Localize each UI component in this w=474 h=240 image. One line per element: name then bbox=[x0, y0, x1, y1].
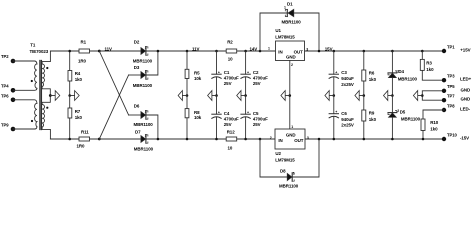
svg-text:4700uF: 4700uF bbox=[224, 75, 239, 80]
svg-text:R3: R3 bbox=[426, 60, 432, 65]
svg-text:2: 2 bbox=[291, 63, 293, 67]
svg-text:R11: R11 bbox=[81, 130, 89, 135]
resistor R11 bbox=[77, 130, 90, 149]
node 15V label bbox=[325, 47, 333, 52]
svg-text:TP7: TP7 bbox=[447, 94, 455, 99]
svg-text:1: 1 bbox=[293, 171, 295, 175]
resistor R2 bbox=[226, 39, 237, 61]
resistor R3 bbox=[420, 50, 444, 80]
svg-text:1: 1 bbox=[291, 125, 293, 129]
transformer polarity dot primary 2 bbox=[31, 120, 33, 122]
transformer T1 core bbox=[40, 61, 42, 130]
svg-text:10: 10 bbox=[228, 56, 233, 61]
capacitor C4 bbox=[212, 96, 239, 140]
node R9 bottom bbox=[363, 138, 366, 141]
svg-text:D3: D3 bbox=[134, 65, 140, 70]
wire TP4 to primary winding 1 bottom bbox=[13, 88, 37, 90]
svg-text:+15V: +15V bbox=[460, 48, 470, 53]
resistor R1 bbox=[78, 39, 90, 63]
svg-text:3: 3 bbox=[306, 47, 308, 51]
svg-text:2: 2 bbox=[270, 136, 272, 140]
svg-text:+: + bbox=[247, 110, 249, 114]
svg-text:OUT: OUT bbox=[294, 138, 303, 143]
svg-text:14V: 14V bbox=[250, 47, 258, 52]
capacitor C1 bbox=[212, 50, 239, 96]
svg-text:R4: R4 bbox=[75, 71, 81, 76]
resistor R12 bbox=[226, 130, 237, 151]
node R4 top junction bbox=[68, 50, 71, 53]
svg-text:LED+: LED+ bbox=[460, 77, 472, 82]
node B bottom rectifier input bbox=[98, 138, 101, 141]
diode D5 bbox=[388, 96, 421, 140]
node A top rectifier input bbox=[98, 47, 112, 53]
svg-text:C6: C6 bbox=[341, 111, 347, 116]
svg-text:940uF: 940uF bbox=[341, 76, 354, 81]
svg-text:+: + bbox=[218, 70, 220, 74]
svg-text:1: 1 bbox=[268, 47, 270, 51]
diode D2 bbox=[99, 40, 158, 64]
resistor R8 bbox=[185, 96, 202, 140]
svg-text:4700uF: 4700uF bbox=[224, 117, 239, 122]
ground center tap bbox=[49, 91, 60, 101]
ground U1 U2 GND bbox=[281, 91, 291, 101]
svg-text:U2: U2 bbox=[275, 151, 281, 156]
svg-text:2: 2 bbox=[145, 69, 147, 73]
ground R6 R9 bbox=[355, 91, 365, 101]
svg-text:4700uF: 4700uF bbox=[253, 75, 268, 80]
wire secondary 2 bottom lead to bottom rail bbox=[42, 127, 50, 139]
svg-text:D1: D1 bbox=[287, 2, 293, 7]
svg-text:TP2: TP2 bbox=[1, 54, 9, 59]
svg-text:1k0: 1k0 bbox=[369, 77, 377, 82]
svg-text:R10: R10 bbox=[430, 120, 439, 125]
transformer polarity dot primary 1 bbox=[31, 80, 33, 82]
svg-text:TP8: TP8 bbox=[447, 103, 455, 108]
svg-text:2: 2 bbox=[145, 45, 147, 49]
svg-text:1k0: 1k0 bbox=[75, 115, 83, 120]
svg-text:LM79M15: LM79M15 bbox=[275, 157, 295, 162]
ground C1 C4 bbox=[208, 91, 218, 101]
svg-text:T1: T1 bbox=[30, 43, 36, 48]
transformer polarity dot secondary 2 bbox=[46, 107, 48, 109]
diode D3 bbox=[129, 51, 158, 88]
capacitor C5 bbox=[241, 96, 268, 140]
svg-text:D4: D4 bbox=[398, 69, 404, 74]
node R7 bottom junction bbox=[68, 138, 71, 141]
svg-text:D7: D7 bbox=[135, 130, 141, 135]
svg-text:MBR1100: MBR1100 bbox=[133, 83, 153, 88]
svg-text:1k0: 1k0 bbox=[369, 117, 377, 122]
svg-text:TP10: TP10 bbox=[447, 132, 458, 137]
wire TP9 to primary winding 2 bottom bbox=[13, 127, 37, 129]
svg-text:C2: C2 bbox=[253, 70, 259, 75]
svg-text:TP9: TP9 bbox=[1, 123, 9, 128]
wire secondary 1 top lead to top rail bbox=[42, 51, 50, 64]
ground R5 R8 bbox=[178, 91, 188, 101]
node second 11V label bbox=[192, 47, 200, 52]
wire TP6 to primary winding 2 top bbox=[13, 100, 37, 104]
test point TP9 bbox=[1, 123, 15, 132]
capacitor C2 bbox=[241, 50, 268, 96]
ground C2 C5 bbox=[237, 91, 247, 101]
svg-text:25V: 25V bbox=[253, 81, 261, 86]
transformer T1 label bbox=[30, 43, 49, 55]
svg-text:MBR1100: MBR1100 bbox=[279, 183, 299, 188]
svg-text:C4: C4 bbox=[224, 111, 230, 116]
test point TP10 bbox=[442, 132, 469, 141]
test point TP4 bbox=[1, 84, 15, 93]
svg-text:D8: D8 bbox=[280, 169, 286, 174]
svg-text:GND: GND bbox=[461, 97, 471, 102]
resistor R7 bbox=[68, 96, 82, 140]
svg-text:11V: 11V bbox=[192, 47, 200, 52]
svg-text:MBR1100: MBR1100 bbox=[133, 59, 153, 64]
svg-text:+: + bbox=[335, 70, 337, 74]
svg-text:IN: IN bbox=[278, 138, 282, 143]
svg-text:25V: 25V bbox=[253, 122, 261, 127]
ground R4 R7 junction bbox=[68, 91, 79, 101]
svg-text:940uF: 940uF bbox=[341, 117, 354, 122]
diode D1 bbox=[259, 2, 319, 53]
wire TP5 TP7 ground pair bbox=[422, 91, 444, 100]
svg-text:25V: 25V bbox=[224, 81, 232, 86]
svg-text:1k0: 1k0 bbox=[426, 67, 434, 72]
svg-text:1k0: 1k0 bbox=[75, 77, 83, 82]
transformer T1 primary winding 2 bbox=[35, 103, 37, 126]
svg-text:GND: GND bbox=[461, 87, 471, 92]
ground TP5 TP7 bbox=[413, 91, 423, 101]
svg-text:1k0: 1k0 bbox=[430, 127, 438, 132]
wire diagonal A to D6 bbox=[99, 51, 128, 115]
wire bottom rail left segment bbox=[50, 138, 275, 140]
svg-text:TIE70023: TIE70023 bbox=[30, 49, 49, 54]
svg-text:TP1: TP1 bbox=[447, 44, 455, 49]
svg-text:IN: IN bbox=[278, 50, 282, 55]
svg-text:LED-: LED- bbox=[460, 107, 471, 112]
svg-text:10k: 10k bbox=[194, 115, 202, 120]
svg-text:GND: GND bbox=[286, 55, 296, 60]
svg-text:TP6: TP6 bbox=[1, 93, 9, 98]
node D1 right leg junction bbox=[318, 50, 321, 53]
test point TP2 bbox=[1, 54, 15, 63]
wire bottom rail right segment bbox=[305, 138, 444, 140]
svg-text:R5: R5 bbox=[194, 71, 200, 76]
test point TP6 bbox=[1, 93, 15, 102]
diode D6 bbox=[129, 103, 158, 139]
svg-text:D6: D6 bbox=[134, 103, 140, 108]
svg-text:2x25V: 2x25V bbox=[341, 123, 354, 128]
test point TP1 bbox=[442, 44, 471, 53]
node 14V label bbox=[250, 47, 258, 52]
svg-text:4700uF: 4700uF bbox=[253, 117, 268, 122]
svg-text:+: + bbox=[335, 110, 337, 114]
wire top rail left segment bbox=[50, 50, 275, 52]
svg-text:2: 2 bbox=[145, 133, 147, 137]
wire top rail right segment bbox=[305, 50, 445, 52]
node D5 bottom bbox=[391, 138, 394, 141]
ground C3 C6 bbox=[325, 91, 335, 101]
svg-text:3: 3 bbox=[307, 136, 309, 140]
diode D8 bbox=[259, 138, 319, 189]
wire diagonal B to D3 bbox=[99, 75, 128, 139]
svg-text:MBR1100: MBR1100 bbox=[401, 117, 421, 122]
svg-text:R8: R8 bbox=[194, 110, 200, 115]
svg-text:D2: D2 bbox=[134, 40, 140, 45]
transformer T1 primary winding 1 bbox=[35, 64, 37, 88]
test point TP5 bbox=[442, 84, 471, 93]
svg-text:1: 1 bbox=[284, 6, 286, 10]
svg-text:-15V: -15V bbox=[460, 136, 469, 141]
svg-text:R7: R7 bbox=[75, 109, 81, 114]
node D8 right leg junction bbox=[318, 138, 321, 141]
svg-text:+: + bbox=[218, 110, 220, 114]
svg-text:C1: C1 bbox=[224, 70, 230, 75]
capacitor C3 bbox=[329, 50, 354, 96]
resistor R4 bbox=[68, 51, 82, 96]
node R8 bottom bbox=[186, 138, 189, 141]
svg-text:MBR1100: MBR1100 bbox=[134, 122, 154, 127]
diode D7 bbox=[99, 130, 158, 152]
svg-text:TP3: TP3 bbox=[447, 74, 455, 79]
transformer polarity dot secondary 1 bbox=[46, 67, 48, 69]
svg-text:10k: 10k bbox=[194, 76, 202, 81]
wire TP2 to primary winding 1 top bbox=[13, 61, 37, 64]
transformer T1 secondary winding 1 bbox=[42, 64, 44, 87]
svg-text:MBR1100: MBR1100 bbox=[134, 147, 154, 152]
svg-text:D5: D5 bbox=[400, 109, 406, 114]
resistor R6 bbox=[362, 50, 377, 96]
svg-text:MBR1100: MBR1100 bbox=[282, 20, 302, 25]
svg-text:1R0: 1R0 bbox=[77, 144, 86, 149]
svg-text:2x25V: 2x25V bbox=[341, 82, 354, 87]
svg-text:C3: C3 bbox=[341, 70, 347, 75]
svg-text:+: + bbox=[247, 70, 249, 74]
node R10 bottom bbox=[422, 138, 425, 141]
test point TP7 bbox=[442, 94, 471, 103]
diode D4 bbox=[388, 50, 417, 96]
wire U1 GND column bbox=[290, 61, 294, 130]
resistor R10 bbox=[421, 110, 444, 139]
svg-text:R1: R1 bbox=[81, 39, 87, 44]
node D6 D7 cathode junction bbox=[157, 138, 160, 141]
node C5 bottom bbox=[244, 138, 247, 141]
op-amp U2 regulator LM79M15 bbox=[270, 129, 309, 162]
svg-text:TP5: TP5 bbox=[447, 84, 455, 89]
transformer T1 secondary winding 2 bbox=[42, 105, 44, 128]
svg-text:C5: C5 bbox=[253, 111, 259, 116]
op-amp U1 regulator LM78M15 bbox=[268, 28, 308, 61]
svg-text:R9: R9 bbox=[369, 110, 375, 115]
svg-text:2: 2 bbox=[145, 109, 147, 113]
svg-text:R12: R12 bbox=[227, 130, 236, 135]
node C4 bottom bbox=[215, 138, 218, 141]
svg-text:1R0: 1R0 bbox=[78, 59, 87, 64]
svg-text:TP4: TP4 bbox=[1, 84, 9, 89]
resistor R9 bbox=[362, 96, 377, 140]
node D2 D3 cathode junction bbox=[157, 50, 160, 53]
svg-text:25V: 25V bbox=[224, 122, 232, 127]
svg-text:10: 10 bbox=[228, 146, 233, 151]
wire secondary center tap bbox=[42, 87, 50, 105]
capacitor C6 bbox=[329, 96, 354, 140]
svg-text:R6: R6 bbox=[369, 70, 375, 75]
svg-text:R2: R2 bbox=[227, 39, 233, 44]
test point TP3 bbox=[442, 74, 472, 83]
svg-text:MBR1100: MBR1100 bbox=[398, 76, 418, 81]
svg-text:LM78M15: LM78M15 bbox=[275, 34, 295, 39]
ground D4 D5 bbox=[384, 91, 394, 101]
svg-text:U1: U1 bbox=[275, 28, 281, 33]
resistor R5 bbox=[185, 50, 202, 96]
node C6 bottom bbox=[333, 138, 336, 141]
svg-text:15V: 15V bbox=[325, 47, 333, 52]
test point TP8 bbox=[442, 103, 471, 112]
